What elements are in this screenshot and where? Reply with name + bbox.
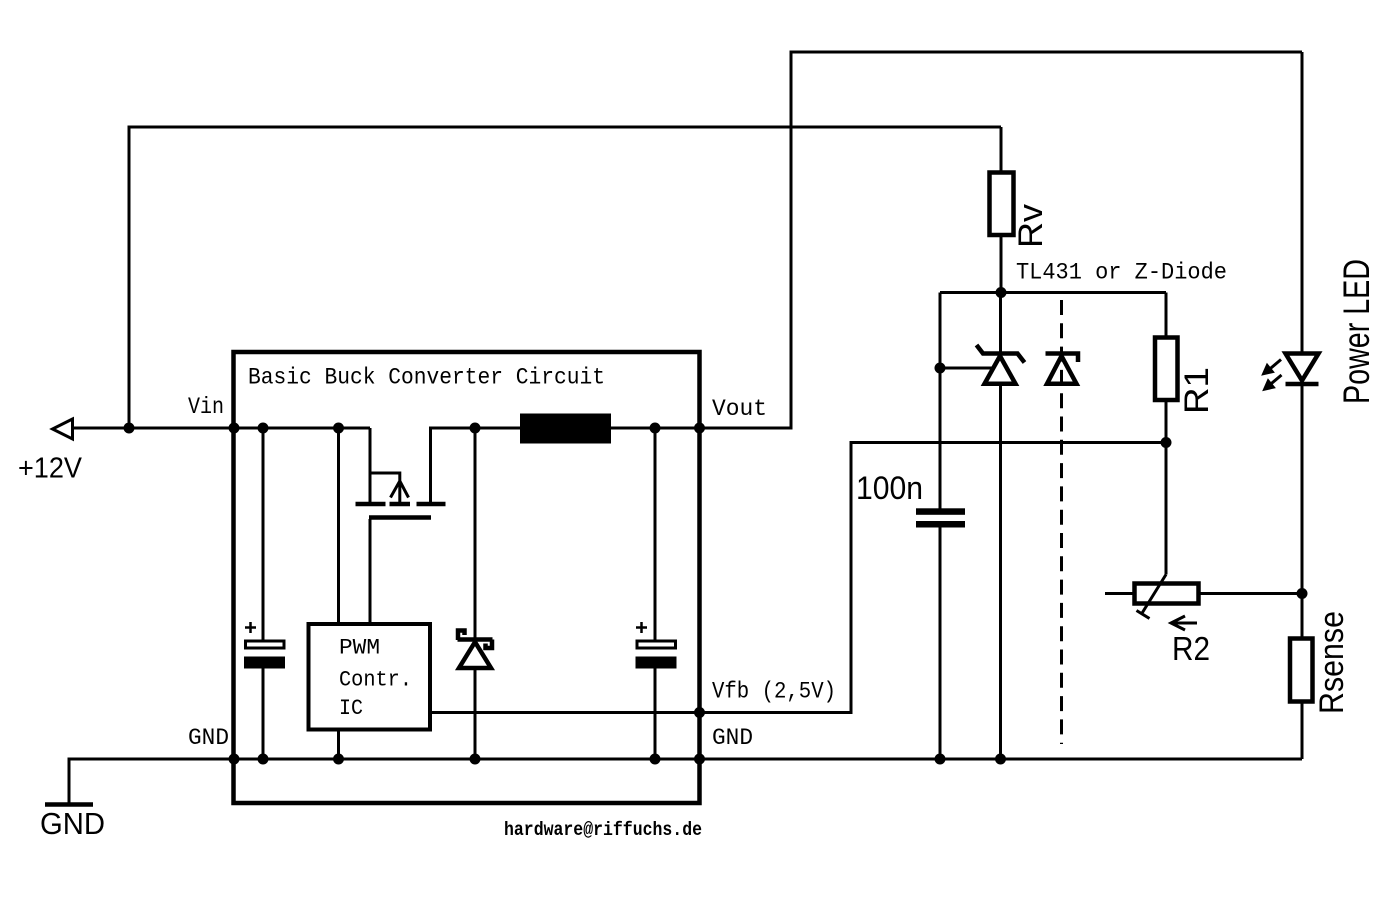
- wire sense branch vertical: [939, 293, 942, 510]
- transistor Q1 drain lead: [431, 428, 476, 504]
- wire +12V feed to box: [73, 427, 235, 430]
- wire LED cathode to Rsense: [1301, 384, 1304, 639]
- LED D3 light arrow 1: [1268, 360, 1281, 371]
- capacitor C1 100n top plate: [916, 508, 965, 515]
- wire gate to PWM IC: [369, 519, 372, 624]
- transistor Q1 body contact bar: [390, 502, 411, 507]
- resistor R2 trimmer body: [1135, 584, 1199, 604]
- wire C1 bottom lead: [939, 528, 942, 760]
- junction sense node: [1297, 588, 1308, 599]
- wire Rsense bottom lead: [1301, 702, 1304, 760]
- resistor R2 adjust arrow: [1171, 616, 1197, 630]
- junction Vfb at box edge: [694, 707, 705, 718]
- transistor Q1 drain contact bar: [417, 502, 446, 507]
- wire Vfb from PWM IC: [430, 443, 1166, 713]
- capacitor Cin polarity plus: [245, 622, 256, 633]
- op-amp U1 PWM controller box: [309, 624, 431, 730]
- wire R2 to sense node: [1199, 592, 1303, 595]
- junction Rv to rail: [996, 287, 1007, 298]
- svg-text:TL431 or Z-Diode: TL431 or Z-Diode: [1016, 260, 1227, 286]
- wire Rv bottom lead: [1000, 235, 1003, 293]
- svg-text:Rv: Rv: [1012, 204, 1050, 248]
- junction ground at left box edge: [229, 754, 240, 765]
- LED D3 light arrow 2 head: [1263, 379, 1275, 390]
- wire regulator top rail: [940, 291, 1166, 294]
- capacitor Cout negative plate: [636, 657, 677, 669]
- wire reference tie: [940, 367, 993, 370]
- resistor R1: [1155, 338, 1178, 401]
- junction Cin bottom: [258, 754, 269, 765]
- wire Cout bottom lead: [654, 668, 657, 759]
- wire Cin top lead: [262, 428, 265, 640]
- ground: [45, 802, 93, 807]
- diode D2 zener cathode bar: [1046, 354, 1079, 363]
- resistor Rsense: [1290, 639, 1313, 702]
- diode D2 zener option dashed wire: [1060, 300, 1063, 744]
- junction PWM supply tap: [333, 423, 344, 434]
- node +12V supply arrow: [53, 419, 73, 439]
- wire R1 bottom lead: [1165, 400, 1168, 443]
- svg-text:R1: R1: [1178, 367, 1216, 414]
- junction Cout top: [650, 423, 661, 434]
- LED D3 light arrow 1 head: [1262, 364, 1274, 375]
- wire R1 top lead: [1165, 293, 1168, 339]
- svg-text:Vout: Vout: [712, 396, 767, 422]
- wire TL431 cathode lead: [999, 293, 1002, 353]
- svg-text:+12V: +12V: [18, 453, 83, 485]
- LED D3 cathode bar: [1286, 382, 1319, 387]
- transistor Q1 source lead: [369, 428, 372, 504]
- wire LED anode lead: [1301, 52, 1304, 354]
- LED D3 light arrow 2: [1269, 375, 1282, 386]
- junction +12V node: [124, 423, 135, 434]
- resistor R2 wiper diagonal: [1137, 575, 1167, 619]
- svg-text:GND: GND: [712, 725, 753, 751]
- wire Rv top lead: [1000, 127, 1003, 173]
- svg-text:Contr.: Contr.: [339, 668, 412, 693]
- transistor Q1 body arrow: [370, 473, 409, 503]
- wire riser to upper feedback rail: [129, 127, 1001, 428]
- transistor Q1 source contact bar: [356, 502, 386, 507]
- svg-text:hardware@riffuchs.de: hardware@riffuchs.de: [504, 819, 702, 841]
- converter block outline: [234, 352, 700, 803]
- wire Cin bottom lead: [262, 668, 265, 759]
- capacitor Cout positive plate: [637, 641, 676, 648]
- svg-text:R2: R2: [1172, 630, 1210, 667]
- wire Vout to LED rail riser: [700, 52, 1303, 428]
- transistor Q1 gate bar: [369, 515, 431, 520]
- junction ground at right box edge: [694, 754, 705, 765]
- svg-text:PWM: PWM: [339, 636, 380, 661]
- wire D1 bottom lead: [474, 668, 477, 759]
- svg-text:Vin: Vin: [188, 394, 224, 420]
- capacitor C1 100n bottom plate: [916, 521, 965, 528]
- wire R2 wiper lead: [1165, 443, 1168, 575]
- wire Vin rail inside box: [234, 427, 370, 430]
- capacitor Cin negative plate: [244, 657, 285, 669]
- svg-text:IC: IC: [339, 696, 363, 721]
- wire ground rail to GND symbol: [69, 759, 234, 803]
- diode U2 TL431 triangle: [985, 356, 1016, 384]
- svg-text:Rsense: Rsense: [1313, 611, 1351, 714]
- svg-text:Power LED: Power LED: [1336, 259, 1377, 404]
- wire ground rail right of box: [700, 758, 1303, 761]
- wire ground rail inside box: [234, 758, 700, 761]
- capacitor Cout polarity plus: [636, 622, 647, 633]
- wire inductor from drain node: [475, 427, 520, 430]
- wire R2 left stub: [1105, 592, 1135, 595]
- junction Vout at box edge: [694, 423, 705, 434]
- junction TL431 anode to ground: [995, 754, 1006, 765]
- svg-text:Vfb (2,5V): Vfb (2,5V): [712, 679, 836, 705]
- junction Vin at box edge: [229, 423, 240, 434]
- junction D1 top: [470, 423, 481, 434]
- wire PWM IC ground pin: [337, 730, 340, 760]
- wire TL431 anode lead: [999, 384, 1002, 759]
- wire inductor to Cout: [611, 427, 700, 430]
- junction reference node: [935, 363, 946, 374]
- diode D2 zener triangle: [1047, 356, 1077, 384]
- wire PWM IC supply pin: [337, 428, 340, 624]
- svg-text:100n: 100n: [856, 470, 923, 506]
- diode D1 freewheeling schottky cathode: [458, 631, 493, 649]
- wire D1 top lead: [474, 428, 477, 639]
- svg-text:GND: GND: [40, 806, 105, 841]
- resistor Rv: [990, 173, 1014, 236]
- junction D1 bottom: [470, 754, 481, 765]
- junction Cin top: [258, 423, 269, 434]
- junction PWM ground: [333, 754, 344, 765]
- inductor L1: [520, 414, 611, 444]
- diode U2 TL431 cathode bar: [977, 345, 1025, 363]
- junction sense to ground: [935, 754, 946, 765]
- diode D1 triangle: [459, 642, 491, 668]
- svg-text:GND: GND: [188, 725, 229, 751]
- junction Cout bottom: [650, 754, 661, 765]
- svg-text:Basic Buck Converter Circuit: Basic Buck Converter Circuit: [248, 365, 605, 391]
- junction R1 to Vfb: [1161, 437, 1172, 448]
- LED D3 triangle: [1286, 354, 1319, 381]
- capacitor Cin positive plate: [246, 641, 285, 648]
- wire Cout top lead: [654, 428, 657, 640]
